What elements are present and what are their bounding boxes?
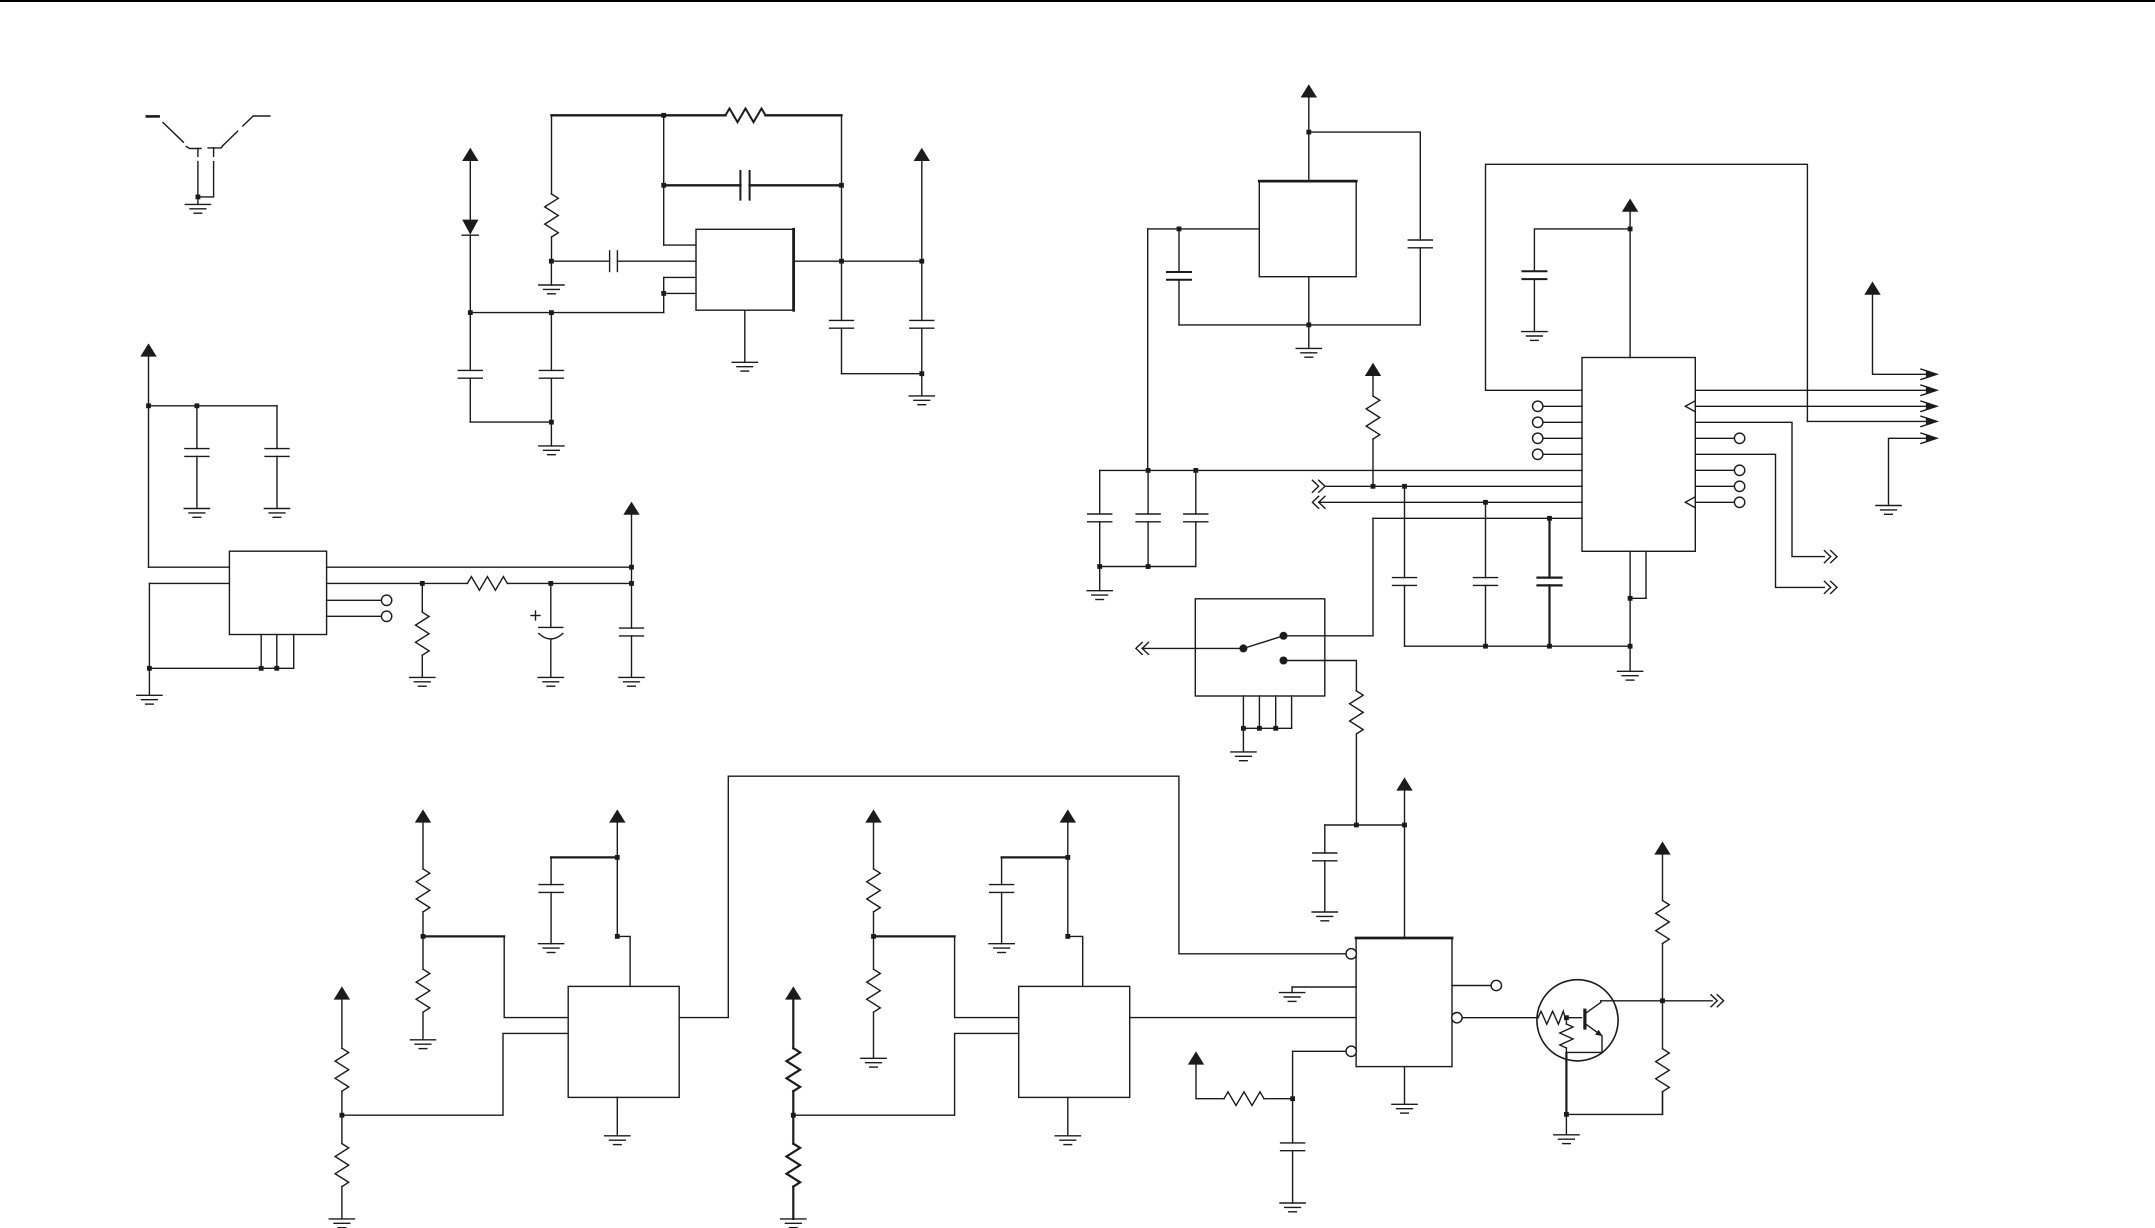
node sw gnd b: [1257, 726, 1262, 731]
wire to ground: [1308, 325, 1310, 349]
wire to ground: [921, 374, 923, 396]
resistor R10: [416, 936, 430, 1039]
node C7 top: [195, 403, 200, 408]
resistor R7: [335, 1000, 349, 1116]
wire VCC down: [616, 823, 618, 937]
capacitor C16: [1184, 470, 1208, 566]
ground: [732, 362, 757, 371]
capacitor C5: [830, 320, 854, 373]
node VCC branch: [1306, 130, 1311, 135]
wire U2 pin2: [149, 582, 229, 584]
wire pin2 down to ground rail: [148, 583, 150, 668]
node SP1 junction: [196, 195, 201, 200]
ground: [184, 509, 209, 518]
wire VCC down: [631, 515, 633, 628]
ground: [1312, 912, 1337, 921]
wire rail down to U5: [1404, 825, 1406, 938]
ground: [989, 944, 1014, 953]
wire throw2 out: [1284, 661, 1357, 691]
wire VCC to Y1: [1308, 98, 1310, 182]
wire C3 to U1 pin2: [617, 260, 696, 262]
wire right vertical: [841, 115, 843, 320]
node gnd rail a: [1483, 644, 1488, 649]
op-amp U1: [696, 229, 794, 310]
wire mid vertical: [663, 115, 665, 245]
wire to ground: [197, 197, 199, 205]
wire lower rail: [470, 312, 663, 314]
wire U4 out4 routed: [1695, 454, 1824, 587]
wire branch left: [1534, 229, 1630, 271]
node output1 end: [629, 565, 634, 570]
ground: [410, 677, 435, 686]
node output right: [919, 259, 924, 264]
power VCC arrow: [1864, 282, 1880, 295]
wire big routing loop: [1486, 164, 1808, 421]
wire out to base resistor: [1462, 1017, 1538, 1019]
wire U2 output2 right: [507, 582, 631, 584]
wire gnd rail right: [1566, 1092, 1662, 1115]
power VCC arrow: [415, 809, 431, 822]
wire throw1 out: [1284, 635, 1374, 637]
wire VCC to diode: [469, 161, 471, 220]
capacitor C15: [1136, 470, 1160, 566]
transistor Q1 emitter: [1566, 1024, 1602, 1053]
wire pin4 left: [1293, 1050, 1346, 1052]
node ground rail: [1306, 323, 1311, 328]
pin NC circle: [1533, 401, 1543, 411]
node lower rail mid: [549, 310, 554, 315]
node C12 top: [1177, 227, 1182, 232]
ground: [1231, 752, 1256, 761]
top border bar: [0, 0, 2155, 2]
node cap rail right: [839, 183, 844, 188]
ground: [605, 1136, 630, 1145]
resistor R11: [787, 1000, 801, 1116]
wire bus line 1: [1100, 469, 1582, 471]
resistor R9: [416, 823, 430, 937]
ground: [1280, 993, 1305, 1002]
wire ground rail: [1405, 645, 1631, 647]
node gnd rail c: [1628, 644, 1633, 649]
connector arrow out: [1824, 581, 1837, 593]
wire U6 ground: [1067, 1097, 1069, 1135]
wire U4 nc right pin: [1695, 437, 1734, 439]
node cap rail left: [661, 183, 666, 188]
capacitor C22: [990, 857, 1014, 943]
node cap branch: [1065, 855, 1070, 860]
wire U5 nc pin: [1452, 985, 1491, 987]
node C5-C6 bottom: [919, 371, 924, 376]
node base branch: [1564, 1015, 1569, 1020]
resistor R1: [726, 109, 766, 123]
wire U5 pin2: [1292, 986, 1356, 988]
power VCC arrow: [1188, 1051, 1204, 1064]
wire VCC to R15: [1196, 1065, 1224, 1099]
capacitor C8: [265, 406, 289, 509]
pin input chevron: [1685, 401, 1695, 412]
node VCC branch: [1628, 227, 1633, 232]
diode D1: [462, 220, 478, 236]
power VCC arrow: [609, 809, 625, 822]
wire loop to connector: [1807, 420, 1935, 422]
node sw gnd c: [1273, 726, 1278, 731]
wire feedback cap rail left: [664, 184, 741, 186]
wire cap branch rail: [149, 405, 278, 407]
connector arrow in: [1312, 496, 1325, 508]
resistor R17 base-emitter: [1560, 1018, 1573, 1053]
wire VCC to rail: [1404, 791, 1406, 825]
wire rail left: [1325, 824, 1405, 826]
ground: [1087, 591, 1112, 600]
capacitor C9 polarized: [531, 583, 563, 677]
ground: [1554, 1135, 1579, 1144]
node pin2 junction: [549, 259, 554, 264]
pin NC circle: [1533, 449, 1543, 459]
wire bus line 2: [1325, 485, 1582, 487]
wire SP1 right lead: [198, 162, 214, 197]
ground: [410, 1040, 435, 1049]
ground: [539, 944, 564, 953]
node VCC branch: [146, 403, 151, 408]
wire node to lower rail: [663, 293, 665, 312]
wire branch left: [551, 856, 617, 858]
wire U1 pin1: [664, 244, 696, 246]
ground: [539, 446, 564, 455]
connector arrow out: [1921, 433, 1938, 443]
node capb1 top: [1402, 484, 1407, 489]
resistor R8: [335, 1115, 349, 1219]
node U4 gnd join: [1628, 596, 1633, 601]
capacitor C11: [1408, 240, 1432, 325]
wire branch right: [1309, 132, 1421, 240]
wire VCC down: [148, 357, 150, 568]
ground: [861, 1058, 886, 1067]
node divider2 mid: [421, 934, 426, 939]
node collector rail: [1660, 998, 1665, 1003]
wire nc pin: [1543, 405, 1582, 407]
IC U4: [1582, 358, 1695, 552]
wire U2 bottom pin c: [293, 635, 295, 669]
power VCC arrow: [140, 343, 156, 356]
wire jog to U3 top: [617, 936, 630, 986]
resistor R5: [1366, 376, 1380, 486]
wire long vertical to rail: [1147, 229, 1149, 471]
wire VCC to U4: [1629, 212, 1631, 358]
node output2 end: [629, 581, 634, 586]
wire SW1 lever: [1243, 636, 1283, 649]
resistor R2: [545, 194, 559, 237]
node VCC rail: [1402, 823, 1407, 828]
wire D1 to rail: [469, 235, 471, 312]
ground: [1618, 671, 1643, 680]
wire nc pin: [1543, 437, 1582, 439]
speaker SP1 (dashed outline): [147, 116, 270, 156]
node pin4 branch: [1290, 1096, 1295, 1101]
IC U5: [1356, 938, 1452, 1067]
node SW1 throw2: [1280, 657, 1288, 665]
node sw gnd a: [1241, 726, 1246, 731]
node SW1 pole: [1239, 644, 1247, 652]
node jog: [1065, 934, 1070, 939]
node top rail junction: [661, 113, 666, 118]
node SW1 throw1: [1280, 632, 1288, 640]
node bottom pin a: [259, 666, 264, 671]
capacitor C1: [458, 313, 482, 423]
wire U3 ground: [616, 1097, 618, 1135]
capacitor C3: [610, 251, 618, 272]
node divider1 mid: [340, 1113, 345, 1118]
pin NC circle: [1734, 481, 1744, 491]
wire left rail down: [551, 115, 553, 194]
node pin3-4 junction: [661, 291, 666, 296]
wire R2 to node: [551, 237, 553, 261]
capacitor C13: [1522, 271, 1546, 331]
IC U6: [1019, 986, 1130, 1097]
pin NC circle: [1734, 433, 1744, 443]
pin NC circle: [381, 611, 391, 621]
wire U4 nc right pin: [1695, 485, 1734, 487]
wire divider4 to U6 pin1: [874, 936, 1019, 1017]
node jog: [615, 934, 620, 939]
ground: [1392, 1104, 1417, 1113]
capacitor C21: [539, 857, 563, 943]
capacitor C19: [1538, 518, 1562, 646]
ground: [264, 509, 289, 518]
wire U1 pin3: [664, 276, 696, 278]
node capb2 top: [1483, 500, 1488, 505]
wire U1 ground pin: [744, 310, 746, 362]
power VCC arrow: [462, 148, 478, 161]
wire to ground: [148, 668, 150, 695]
node ground rail left: [147, 666, 152, 671]
node divider3 mid: [791, 1113, 796, 1118]
wire to ground: [1242, 728, 1244, 752]
wire U4 out1: [1695, 389, 1935, 391]
wire bus line 3: [1319, 501, 1582, 503]
capacitor C7: [185, 406, 209, 509]
pin NC circle: [381, 595, 391, 605]
wire to ground: [1291, 987, 1293, 993]
ground: [185, 204, 210, 213]
node bottom pin b: [274, 666, 279, 671]
ground: [1055, 1136, 1080, 1145]
wire VCC vertical: [921, 161, 923, 320]
pin NC circle: [1734, 465, 1744, 475]
resistor R3: [467, 577, 507, 591]
power VCC arrow bold: [785, 986, 801, 999]
node R3 right: [548, 581, 553, 586]
resistor R19: [1656, 1001, 1670, 1115]
wire pin4 down: [1292, 1051, 1294, 1098]
wire pin2 node to ground: [550, 261, 552, 285]
wire U2 nc pin1: [327, 599, 382, 601]
resistor R15: [1224, 1092, 1264, 1106]
power VCC arrow: [865, 809, 881, 822]
node divider4 mid: [871, 934, 876, 939]
wire collector out: [1601, 1000, 1712, 1002]
ground: [1280, 1203, 1305, 1212]
node emitter gnd rail: [1564, 1112, 1569, 1117]
wire U2 nc pin2: [327, 615, 382, 617]
capacitor C20: [1313, 825, 1337, 912]
wire U4 nc right pin: [1695, 501, 1734, 503]
capacitor C4: [740, 171, 749, 200]
wire SW1 ground pins: [1243, 696, 1291, 728]
capacitor C6: [910, 320, 934, 373]
pin bubble U5 in1: [1346, 949, 1356, 959]
wire to ground: [1565, 1114, 1567, 1134]
wire U5 ground: [1404, 1067, 1406, 1105]
pin NC circle: [1533, 433, 1543, 443]
capacitor C18: [1474, 502, 1498, 646]
ground: [619, 677, 644, 686]
resistor R6: [1350, 691, 1364, 825]
power VCC arrow: [1301, 84, 1317, 97]
wire branch left: [1002, 856, 1068, 858]
pin NC circle: [1491, 980, 1501, 990]
node output mid: [839, 259, 844, 264]
wire VCC down: [1067, 823, 1069, 937]
wire Y1 ground rail: [1179, 324, 1420, 326]
wire emitter to ground: [1565, 1053, 1567, 1114]
wire pin3 step down: [663, 277, 665, 293]
wire top rail left: [552, 114, 726, 116]
power VCC arrow: [623, 502, 639, 515]
power VCC arrow: [1365, 363, 1381, 376]
node R6 bottom: [1354, 823, 1359, 828]
wire base: [1565, 1017, 1581, 1019]
wire SW1 common: [1142, 647, 1243, 649]
wire U2 output2 left: [327, 582, 468, 584]
wire nc pin: [1543, 453, 1582, 455]
capacitor C17: [1393, 486, 1417, 646]
wire U2 bottom pin a: [260, 635, 262, 669]
resistor R16 base: [1538, 1011, 1565, 1024]
wire R15 to node: [1264, 1098, 1293, 1100]
capacitor C14: [1088, 470, 1112, 566]
wire switch riser: [1372, 518, 1374, 636]
ground: [909, 396, 934, 405]
node capb3 top: [1547, 516, 1552, 521]
resistor R4: [416, 583, 430, 677]
resistor R18: [1656, 855, 1670, 1001]
node cap2 top: [1146, 468, 1151, 473]
connector arrow out: [1921, 369, 1938, 379]
transistor Q1 collector: [1585, 1001, 1601, 1014]
node gnd rail b: [1547, 644, 1552, 649]
wire Y1 left pin: [1148, 228, 1260, 230]
wire U4 ground pins: [1630, 551, 1646, 598]
wire U4 nc right pin: [1695, 469, 1734, 471]
node cap1 bottom: [1097, 564, 1102, 569]
wire bus line 4: [1373, 517, 1582, 519]
resistor R14: [867, 936, 881, 1058]
wire VCC to connector: [1873, 295, 1936, 375]
IC U2: [229, 551, 326, 634]
ground: [1522, 332, 1547, 341]
wire to ground: [1099, 567, 1101, 591]
switch SW1 box: [1195, 599, 1325, 696]
wire divider1 to U3 pin2: [342, 1033, 568, 1115]
wire U2 pin1: [149, 566, 230, 568]
connector arrow out: [1921, 401, 1938, 411]
wire U6 output: [1130, 1017, 1356, 1019]
wire C5 bottom to right: [842, 373, 922, 375]
wire SP1 left lead: [197, 162, 199, 197]
wire U3 output long: [679, 776, 1346, 1017]
wire feedback cap rail right: [750, 184, 842, 186]
ground: [1296, 348, 1321, 357]
wire U2 bottom pin b: [276, 635, 278, 669]
node cap bottom junction: [549, 420, 554, 425]
emitter arrowhead: [1595, 1030, 1602, 1036]
capacitor C23: [1281, 1099, 1305, 1203]
ground: [137, 695, 162, 704]
wire jog to U6 top: [1068, 936, 1083, 986]
wire top rail right: [766, 114, 842, 116]
wire ground rail: [149, 667, 293, 669]
transistor Q1 circle: [1537, 980, 1618, 1061]
ground: [329, 1219, 354, 1228]
ground: [538, 677, 563, 686]
connector arrow in: [1312, 480, 1325, 492]
pin NC circle: [1533, 417, 1543, 427]
wire cap bottom rail: [1100, 566, 1196, 568]
power VCC arrow: [1654, 841, 1670, 854]
wire U1 output: [794, 260, 922, 262]
pin input chevron: [1685, 497, 1695, 508]
oscillator Y1: [1259, 181, 1356, 277]
wire divider3 to U6 pin2: [793, 1033, 1018, 1115]
power VCC arrow: [1622, 199, 1638, 212]
node cap branch: [615, 855, 620, 860]
wire U4 out2: [1695, 405, 1935, 407]
capacitor C10: [620, 628, 644, 677]
capacitor C12: [1167, 229, 1191, 325]
ground: [539, 285, 564, 294]
connector arrow out: [1824, 551, 1837, 563]
pin bubble U5 in4: [1346, 1046, 1356, 1056]
resistor R12: [787, 1115, 801, 1219]
power VCC arrow: [1396, 777, 1412, 790]
node lower rail left: [468, 310, 473, 315]
wire U1 pin4: [664, 292, 696, 294]
resistor R13: [867, 823, 881, 937]
wire U4 out3 routed: [1695, 422, 1824, 556]
pin bubble U5 out: [1452, 1013, 1462, 1023]
connector arrow out: [1711, 995, 1724, 1007]
wire divider2 to U3 pin1: [423, 936, 568, 1017]
wire Y1 bottom pin: [1308, 277, 1310, 325]
ground: [781, 1219, 806, 1228]
power VCC arrow: [1060, 809, 1076, 822]
connector arrow in: [1136, 642, 1149, 654]
wire C1 to C2 node: [470, 421, 551, 423]
capacitor C2: [539, 313, 563, 423]
node R3 left: [420, 581, 425, 586]
connector arrow out: [1921, 416, 1938, 426]
transistor Q1 base bar: [1583, 1010, 1586, 1028]
wire nc pin: [1543, 421, 1582, 423]
power VCC arrow: [334, 986, 350, 999]
connector arrow out: [1921, 385, 1938, 395]
node cap2 bottom: [1146, 564, 1151, 569]
wire to ground: [550, 422, 552, 446]
ground: [1876, 506, 1901, 515]
wire pin2 node to C3: [551, 260, 609, 262]
power VCC arrow: [914, 148, 930, 161]
pin NC circle: [1734, 497, 1744, 507]
